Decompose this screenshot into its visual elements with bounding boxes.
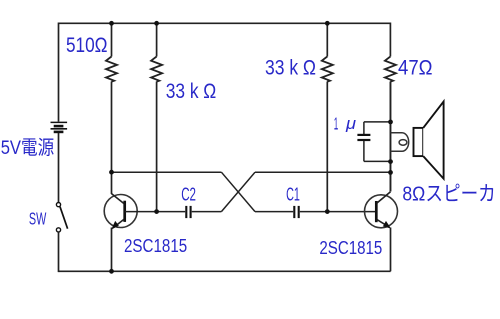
junction node Q2 collector / cross wire: [388, 170, 393, 175]
speaker LS1 driver body: [414, 128, 424, 156]
wire diagonal upper-left to lower-right: [221, 172, 255, 211]
junction node R3 / Q2 base: [325, 209, 330, 214]
switch SW: [56, 203, 67, 232]
junction node 1uF bottom: [388, 159, 393, 164]
junction node R2 / Q1 base: [154, 209, 159, 214]
battery B1 (5V): [51, 122, 68, 131]
wire switch to bottom rail: [58, 232, 60, 272]
junction node 1uF top: [388, 120, 393, 125]
speaker terminal loop eye: [399, 140, 407, 146]
wire battery to switch: [58, 133, 60, 202]
capacitor C1: [294, 206, 298, 218]
capacitor 1uF top wire: [364, 122, 391, 134]
wire cross-coupling upper-right: [255, 171, 391, 173]
capacitor 1uF plates: [357, 135, 370, 140]
wire cross-coupling upper-left: [112, 171, 222, 173]
wire diagonal to C1: [255, 211, 293, 213]
wire bottom rail: [59, 270, 391, 272]
wire top rail: [59, 22, 391, 24]
wire left vertical (battery branch): [58, 23, 60, 122]
wire C2 to diagonal: [192, 211, 222, 213]
speaker terminal loop: [391, 133, 409, 152]
wire 47ohm / speaker vertical: [390, 82, 392, 192]
capacitor C2: [186, 206, 190, 218]
resistor R2 33k (left): [151, 23, 162, 211]
svg-text:47Ω: 47Ω: [398, 57, 433, 80]
svg-text:2SC1815: 2SC1815: [124, 236, 187, 256]
svg-text:SW: SW: [29, 208, 47, 228]
wire diagonal lower-left to upper-right: [221, 172, 255, 211]
wire C1 to Q2 base: [300, 211, 377, 213]
svg-text:C2: C2: [181, 184, 196, 205]
resistor R3 33k (right): [322, 23, 333, 211]
junction node top rail / R1: [109, 21, 114, 26]
svg-text:5V電源: 5V電源: [1, 137, 55, 159]
svg-text:μ: μ: [345, 115, 356, 133]
transistor Q1 2SC1815 (left): [104, 194, 137, 272]
wire Q1 base to C2: [125, 211, 186, 213]
svg-text:2SC1815: 2SC1815: [319, 238, 382, 258]
svg-text:C1: C1: [286, 184, 300, 205]
svg-text:33 k Ω: 33 k Ω: [265, 57, 316, 80]
svg-text:33 k Ω: 33 k Ω: [166, 80, 217, 103]
svg-text:8Ωスピーカ: 8Ωスピーカ: [402, 182, 495, 205]
capacitor 1uF bottom wire: [364, 141, 391, 161]
resistor R1 510 ohm: [106, 23, 117, 194]
transistor Q2 2SC1815 (right): [365, 192, 398, 271]
junction node top rail / R3: [325, 21, 330, 26]
junction node Q1 collector / cross wire: [109, 170, 114, 175]
junction node top rail / R2: [154, 21, 159, 26]
svg-text:510Ω: 510Ω: [66, 34, 108, 57]
junction node bottom rail / Q1 emitter: [109, 269, 114, 274]
speaker LS1 cone: [423, 102, 443, 179]
svg-text:1: 1: [334, 114, 339, 134]
resistor R4 47 ohm: [385, 23, 396, 192]
